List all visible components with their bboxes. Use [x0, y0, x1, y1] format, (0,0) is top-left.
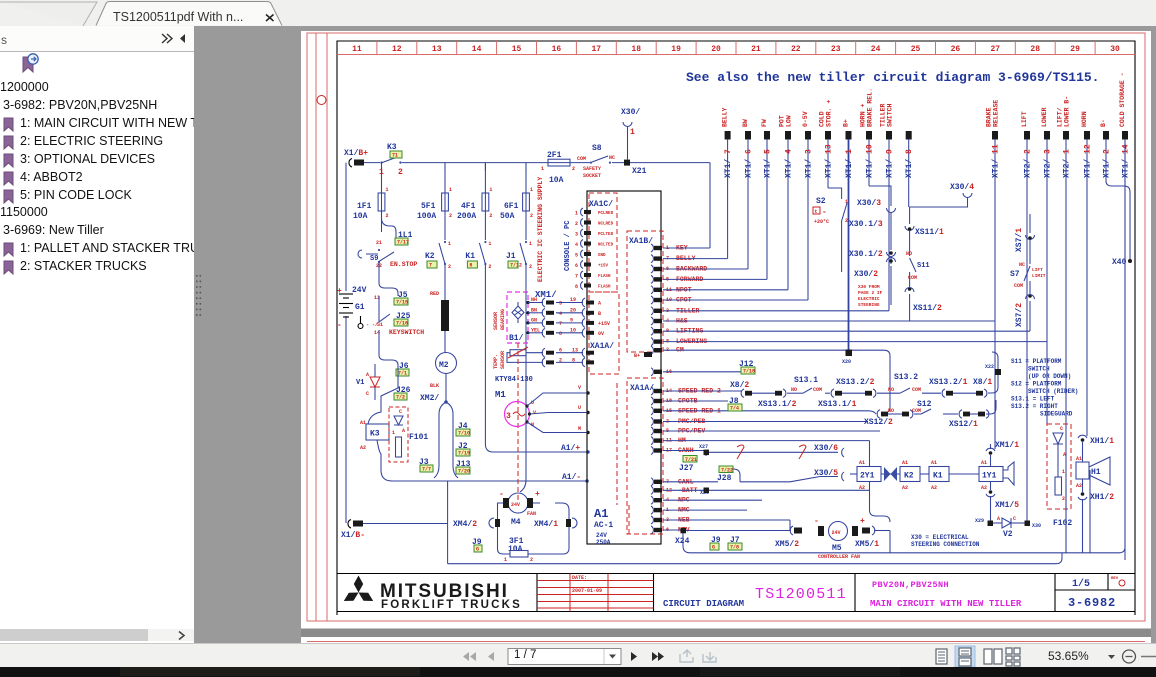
svg-text:7/20: 7/20	[458, 469, 470, 475]
wire CM loop to S12	[852, 350, 890, 413]
wire drop x=381.5	[381, 163, 383, 171]
svg-text:A1: A1	[902, 460, 908, 466]
wire row TILLER	[663, 310, 889, 312]
svg-text:X24: X24	[675, 537, 690, 546]
svg-text:7/1: 7/1	[398, 371, 407, 377]
diode V2	[993, 522, 1002, 524]
svg-text:COM: COM	[577, 156, 586, 162]
terminal XT1/1	[846, 131, 852, 140]
svg-text:13: 13	[432, 45, 442, 54]
svg-text:G1: G1	[355, 303, 365, 312]
pin XA1A 16 16	[651, 368, 653, 376]
svg-text:AC-1: AC-1	[594, 521, 613, 530]
svg-text:M: M	[578, 426, 581, 432]
wire HM loop box	[869, 441, 871, 466]
svg-text:NC: NC	[609, 155, 615, 161]
svg-text:K1: K1	[465, 252, 475, 261]
tag J28	[719, 466, 733, 473]
svg-text:XA1B/: XA1B/	[629, 237, 653, 246]
red dashed pair inside A1	[616, 383, 618, 505]
wire CANL to X30/5	[740, 477, 838, 482]
svg-text:-: -	[337, 321, 342, 330]
svg-text:(UP OR DOWN): (UP OR DOWN)	[1028, 373, 1071, 380]
svg-text:B-: B-	[1100, 119, 1107, 127]
svg-text:XH1/2: XH1/2	[1090, 493, 1114, 502]
svg-text:BLK: BLK	[430, 383, 439, 389]
svg-text:100A: 100A	[417, 212, 436, 221]
svg-text:XM5/2: XM5/2	[775, 540, 799, 549]
svg-text:19: 19	[570, 297, 576, 303]
svg-text:A1: A1	[859, 460, 865, 466]
svg-text:3-6982: 3-6982	[1068, 596, 1116, 610]
svg-text:XM1/1: XM1/1	[995, 441, 1019, 450]
svg-text:7/19: 7/19	[458, 451, 470, 457]
motor M2	[436, 353, 457, 374]
tag J27	[683, 456, 697, 463]
svg-text:S2: S2	[816, 197, 826, 206]
svg-text:ELECTRIC: ELECTRIC	[858, 296, 880, 302]
svg-text:A1: A1	[360, 420, 366, 426]
svg-text:A1/-: A1/-	[562, 473, 581, 482]
svg-text:V2: V2	[1003, 530, 1013, 539]
svg-text:XT1/ 11: XT1/ 11	[992, 144, 1001, 178]
terminal XT1/12	[1084, 131, 1090, 140]
svg-text:X40: X40	[1112, 258, 1127, 267]
pin XA1A 11 HM	[651, 437, 653, 445]
pin XA1B 2 CM	[651, 346, 653, 354]
svg-text:B: B	[598, 311, 601, 317]
svg-text:B+: B+	[843, 119, 850, 127]
terminal XT1/9	[886, 131, 892, 140]
svg-text:NO: NO	[791, 387, 797, 393]
svg-text:7/15: 7/15	[396, 300, 408, 306]
svg-text:K3: K3	[370, 430, 380, 439]
svg-text:NCLRED: NCLRED	[598, 223, 614, 227]
connector XS11/1	[905, 226, 914, 231]
pin XA1B 8 LOWERING	[651, 338, 653, 346]
inactive tab edge	[0, 2, 97, 26]
svg-text:K2: K2	[904, 472, 914, 481]
svg-text:1: 1	[392, 430, 395, 436]
svg-text:1/5: 1/5	[1072, 578, 1090, 590]
pin XA1B 3 TILLER	[651, 307, 653, 315]
magenta dashed line	[517, 343, 519, 500]
wire XT1/14 vertical	[1124, 139, 1126, 560]
svg-text:X30/5: X30/5	[814, 469, 838, 478]
svg-text:X30/6: X30/6	[814, 444, 838, 453]
terminal XT1/2	[1103, 131, 1109, 140]
wire bottom bus B	[1050, 553, 1062, 564]
svg-text:NH: NH	[531, 297, 537, 303]
svg-text:7/16: 7/16	[396, 321, 408, 327]
wire main bus	[364, 162, 710, 164]
connector XS13.1/2	[741, 389, 744, 397]
svg-text:XT1/ 12: XT1/ 12	[1084, 144, 1093, 178]
svg-text:XA1C/: XA1C/	[589, 200, 613, 209]
pin XA1A 12 -BATT	[651, 486, 653, 494]
svg-text:POT: POT	[779, 115, 786, 127]
connector XS11/2	[908, 287, 912, 291]
svg-text:X8/2: X8/2	[730, 381, 749, 390]
svg-text:2: 2	[1062, 496, 1065, 502]
relay coil 2Y1	[857, 467, 881, 482]
wire X8/1 up	[988, 352, 998, 393]
svg-text:A1: A1	[931, 460, 937, 466]
svg-text:10A: 10A	[353, 212, 368, 221]
svg-text:X30 FROM: X30 FROM	[858, 284, 880, 290]
svg-text:1: 1	[529, 241, 532, 247]
svg-text:XM2/: XM2/	[420, 394, 439, 403]
svg-text:+20°C: +20°C	[814, 219, 829, 225]
svg-text:XA1A/: XA1A/	[630, 384, 654, 393]
wire 1F1 chain	[382, 211, 397, 238]
svg-text:11: 11	[352, 45, 362, 54]
wire 6F1 feed to fan	[520, 290, 526, 492]
svg-text:V1: V1	[356, 379, 364, 387]
svg-text:30: 30	[1110, 45, 1120, 54]
svg-text:7/12: 7/12	[510, 263, 522, 269]
svg-text:S8: S8	[592, 144, 602, 153]
wire XT1/7 vertical	[727, 139, 729, 259]
svg-text:7/21: 7/21	[685, 457, 697, 463]
wire row KEY	[663, 247, 710, 249]
svg-text:7: 7	[429, 263, 432, 269]
svg-text:XT2/ 1: XT2/ 1	[1063, 149, 1072, 178]
svg-text:4: 4	[575, 242, 578, 248]
svg-text:7/8: 7/8	[730, 545, 739, 551]
svg-text:1: 1	[504, 557, 507, 563]
svg-text:GND: GND	[598, 254, 606, 258]
svg-text:LIFT: LIFT	[1021, 111, 1028, 127]
svg-text:PAGE 2 IF: PAGE 2 IF	[858, 290, 883, 296]
svg-text:18: 18	[631, 45, 641, 54]
svg-text:A: A	[366, 372, 369, 378]
svg-text:XS7/1: XS7/1	[1015, 228, 1024, 252]
svg-text:RED: RED	[430, 291, 439, 297]
svg-text:G: G	[712, 545, 715, 551]
wire XT1/11 vertical	[994, 139, 996, 449]
svg-text:FW: FW	[761, 119, 768, 127]
pin XA1A 15 SPEED RED 1	[651, 407, 653, 415]
svg-text:5: 5	[575, 253, 578, 259]
suppressor F102	[1047, 424, 1071, 509]
svg-text:S9: S9	[370, 255, 378, 263]
svg-text:X8/1: X8/1	[973, 378, 992, 387]
svg-text:XM4/2: XM4/2	[453, 520, 477, 529]
pin XA1A 4 NPC	[651, 496, 653, 504]
svg-text:DATE:: DATE:	[572, 575, 587, 581]
svg-text:B1/: B1/	[509, 334, 524, 343]
svg-text:XT1/ 6: XT1/ 6	[745, 149, 754, 178]
connector XS12/1	[959, 410, 962, 418]
svg-text:200A: 200A	[457, 212, 476, 221]
svg-text:1: 1	[1062, 469, 1065, 475]
wire drop x=485.4	[484, 163, 486, 171]
svg-text:SENSOR: SENSOR	[500, 351, 506, 369]
svg-text:G: G	[476, 547, 479, 553]
svg-text:2: 2	[386, 213, 389, 219]
switch K3 (line contactor aux)	[380, 161, 382, 163]
svg-text:BRAKE REL.: BRAKE REL.	[867, 88, 874, 127]
svg-text:7/22: 7/22	[721, 468, 733, 474]
wire M1 phases	[527, 393, 588, 433]
connector XA1A dashed left	[589, 292, 619, 374]
wire drop x=526	[525, 163, 527, 171]
left red margin lines	[315, 33, 317, 621]
svg-text:C: C	[399, 409, 402, 415]
svg-text:7: 7	[575, 274, 578, 280]
svg-text:XM4/1: XM4/1	[534, 520, 558, 529]
svg-text:H1: H1	[1091, 468, 1101, 477]
svg-text:COM: COM	[912, 408, 921, 414]
svg-text:20: 20	[570, 307, 576, 313]
wire K1 to A1/+	[485, 264, 588, 452]
svg-text:-: -	[822, 208, 827, 217]
svg-text:2: 2	[488, 264, 491, 270]
svg-text:XS12/2: XS12/2	[864, 418, 893, 427]
svg-text:29: 29	[1070, 45, 1080, 54]
svg-text:XT2/ 3: XT2/ 3	[1044, 149, 1053, 178]
svg-text:XT1/ 7: XT1/ 7	[724, 149, 733, 178]
svg-text:1: 1	[489, 187, 492, 193]
svg-text:XT1/ 2: XT1/ 2	[1103, 149, 1112, 178]
svg-text:COM: COM	[813, 387, 822, 393]
svg-text:XS13.2/1: XS13.2/1	[929, 378, 968, 387]
suppressor F101	[389, 407, 408, 462]
date table	[537, 580, 654, 582]
svg-text:A: A	[598, 301, 601, 307]
wire XT1/4 vertical	[787, 139, 789, 290]
wire XM2 twin drop	[434, 402, 458, 478]
node X24	[681, 528, 687, 534]
diode V1	[370, 377, 380, 387]
svg-text:10: 10	[570, 327, 576, 333]
pin XA1B 5 FORWARD	[651, 275, 653, 283]
svg-text:A: A	[1063, 452, 1066, 458]
svg-text:C: C	[366, 391, 369, 397]
svg-text:LOWER: LOWER	[1041, 107, 1048, 127]
svg-text:HORN: HORN	[1081, 111, 1088, 127]
svg-text:TEMP.: TEMP.	[493, 354, 499, 369]
wire relay row	[850, 473, 857, 475]
svg-text:X30 = ELECTRICAL: X30 = ELECTRICAL	[911, 534, 969, 541]
terminal XT1/10	[866, 131, 872, 140]
svg-text:XT2/ 2: XT2/ 2	[1024, 149, 1033, 178]
svg-text:A2: A2	[859, 485, 865, 491]
svg-text:M2: M2	[439, 361, 449, 370]
svg-text:24V: 24V	[596, 532, 607, 539]
thermistor KTY84-130	[510, 350, 526, 356]
svg-text:7/18: 7/18	[743, 369, 755, 375]
wire row CM	[663, 349, 849, 351]
svg-text:15: 15	[512, 45, 522, 54]
svg-text:24: 24	[871, 45, 881, 54]
svg-text:3: 3	[506, 412, 511, 421]
svg-text:CIRCUIT DIAGRAM: CIRCUIT DIAGRAM	[663, 599, 744, 609]
svg-text:X30/2: X30/2	[854, 270, 878, 279]
svg-text:20: 20	[711, 45, 721, 54]
svg-text:27: 27	[990, 45, 1000, 54]
connector XM1 pin 3/19 A	[526, 301, 529, 304]
svg-text:ELECTRIC IC STEERING SUPPLY: ELECTRIC IC STEERING SUPPLY	[537, 177, 544, 282]
wire XT1/12 vertical	[1086, 139, 1088, 436]
svg-text:See also the new tiller circui: See also the new tiller circuit diagram …	[686, 70, 1099, 85]
pin B+	[644, 352, 652, 357]
svg-text:24V: 24V	[511, 502, 520, 508]
svg-text:2Y1: 2Y1	[860, 472, 875, 481]
svg-text:1: 1	[575, 211, 578, 217]
splitter grip dots	[195, 274, 203, 334]
svg-text:TS1200511: TS1200511	[755, 586, 847, 603]
svg-text:XS13.2/2: XS13.2/2	[836, 378, 875, 387]
svg-text:2: 2	[448, 264, 451, 270]
svg-text:X1/B-: X1/B-	[341, 531, 365, 540]
svg-text:1: 1	[488, 241, 491, 247]
svg-text:7: 7	[559, 321, 562, 327]
svg-text:PCLRED: PCLRED	[598, 212, 614, 216]
wire CANH to X30/6	[709, 451, 838, 453]
pin XA1B 11 NPOT	[651, 286, 653, 294]
wire row BELLY	[663, 258, 728, 260]
svg-text:X27: X27	[699, 444, 708, 450]
terminal XT1/8	[906, 131, 912, 140]
svg-text:1F1: 1F1	[357, 202, 372, 211]
tag K3	[390, 151, 402, 158]
svg-text:M1: M1	[495, 390, 506, 400]
terminal XT2/2	[1024, 131, 1030, 140]
relay coil 1Y1	[979, 467, 1003, 482]
svg-text:SWITCH: SWITCH	[887, 103, 894, 127]
svg-text:XS12/1: XS12/1	[949, 420, 978, 429]
svg-text:X30/4: X30/4	[950, 183, 974, 192]
svg-text:7/4: 7/4	[730, 406, 739, 412]
svg-text:SWITCH (RIDER): SWITCH (RIDER)	[1028, 388, 1078, 395]
wire row CPOT	[663, 299, 808, 301]
svg-text:X30/: X30/	[621, 108, 640, 117]
twisted pair marks	[737, 445, 744, 459]
svg-text:LIFT: LIFT	[1032, 267, 1043, 273]
wire NEB drop	[789, 520, 791, 531]
wire K2 to M2	[444, 264, 446, 300]
svg-text:2: 2	[449, 213, 452, 219]
svg-text:COLD STORAGE -: COLD STORAGE -	[1119, 72, 1126, 127]
svg-text:16: 16	[552, 45, 562, 54]
wire KEY feed from X21	[709, 163, 711, 248]
svg-text:1: 1	[448, 241, 451, 247]
svg-text:STEERING: STEERING	[858, 302, 880, 308]
svg-text:+15V: +15V	[598, 321, 610, 327]
pin XA1A 5 PPC/PEV	[651, 427, 653, 435]
svg-text:25: 25	[911, 45, 921, 54]
terminal XT1/7	[725, 131, 731, 140]
wire XT1/13 vertical	[827, 139, 829, 188]
svg-text:X30.1/2: X30.1/2	[849, 250, 883, 259]
svg-text:X1/B+: X1/B+	[344, 149, 368, 158]
wire B- to loop	[363, 523, 448, 525]
relay coil K1	[929, 467, 949, 482]
svg-text:A2: A2	[360, 445, 366, 451]
svg-text:XS7/2: XS7/2	[1015, 303, 1024, 327]
svg-text:LOW: LOW	[786, 115, 793, 127]
connector XA1A dashed right	[627, 378, 663, 534]
svg-text:STOR. +: STOR. +	[826, 100, 833, 127]
svg-text:A1: A1	[981, 460, 987, 466]
svg-text:28: 28	[1030, 45, 1040, 54]
svg-text:24V: 24V	[352, 286, 367, 295]
controller A1 outline	[587, 191, 661, 544]
wire row BACKWARD	[663, 268, 748, 270]
svg-text:1: 1	[449, 187, 452, 193]
svg-text:14: 14	[472, 45, 482, 54]
connector XM1 pin 4/20 B	[526, 311, 529, 314]
node X20	[846, 350, 853, 357]
wire row LOWERING	[663, 341, 1047, 343]
svg-text:B+: B+	[634, 353, 640, 359]
fan M5	[818, 526, 824, 536]
svg-text:A1/+: A1/+	[561, 444, 580, 453]
red margin circle	[317, 96, 326, 105]
svg-text:S7: S7	[1010, 270, 1020, 279]
svg-text:NO: NO	[906, 251, 912, 257]
terminal XT1/3	[805, 131, 811, 140]
svg-text:PBV20N,PBV25NH: PBV20N,PBV25NH	[872, 580, 949, 590]
svg-text:A1: A1	[1076, 456, 1082, 462]
svg-text:6: 6	[575, 263, 578, 269]
connector XS12/2	[877, 410, 880, 418]
connector XS13.2/1	[942, 389, 945, 397]
svg-text:XM1/: XM1/	[535, 290, 557, 300]
svg-text:EN.STOP: EN.STOP	[390, 261, 417, 268]
svg-text:S1: S1	[377, 322, 383, 328]
svg-text:KTY84-130: KTY84-130	[495, 376, 533, 384]
svg-text:SAFETY: SAFETY	[583, 166, 601, 172]
svg-text:XM1/5: XM1/5	[995, 501, 1019, 510]
wire fan row	[686, 530, 791, 532]
svg-text:BN: BN	[531, 307, 537, 313]
black drawing frame	[337, 41, 1135, 615]
svg-text:K1: K1	[933, 472, 943, 481]
svg-text:LOWER B-: LOWER B-	[1064, 96, 1071, 127]
svg-text:21: 21	[376, 240, 382, 246]
svg-text:NO: NO	[888, 408, 894, 414]
page outer red border	[307, 33, 1145, 621]
svg-text:8: 8	[469, 263, 472, 269]
svg-text:CONTROLLER FAN: CONTROLLER FAN	[818, 554, 860, 560]
svg-text:FORKLIFT TRUCKS: FORKLIFT TRUCKS	[381, 599, 522, 611]
wire row FORWARD	[663, 278, 767, 280]
svg-text:SOCKET: SOCKET	[583, 173, 601, 179]
terminal XT1/4	[785, 131, 791, 140]
svg-text:X29: X29	[975, 518, 984, 524]
svg-text:YEL: YEL	[531, 327, 540, 333]
fuse 5F1	[444, 163, 446, 193]
svg-text:COM: COM	[912, 387, 921, 393]
svg-text:TILLER: TILLER	[880, 103, 887, 127]
svg-text:2: 2	[530, 213, 533, 219]
column header strip	[337, 54, 1135, 56]
pin XA1B 6 BACKWARD	[651, 265, 653, 273]
svg-text:t: t	[815, 209, 818, 215]
wire XT1/10 vertical	[868, 139, 870, 186]
wire row H&amp;S	[663, 320, 995, 322]
svg-text:3: 3	[559, 301, 562, 307]
svg-text:XT1/ 8: XT1/ 8	[905, 149, 914, 178]
pin XA1A 14 SPEED RED 2	[651, 387, 653, 395]
svg-text:5F1: 5F1	[421, 202, 436, 211]
valve symbol	[884, 467, 897, 481]
sensor B1 box	[507, 292, 528, 343]
svg-text:A2: A2	[1076, 483, 1082, 489]
